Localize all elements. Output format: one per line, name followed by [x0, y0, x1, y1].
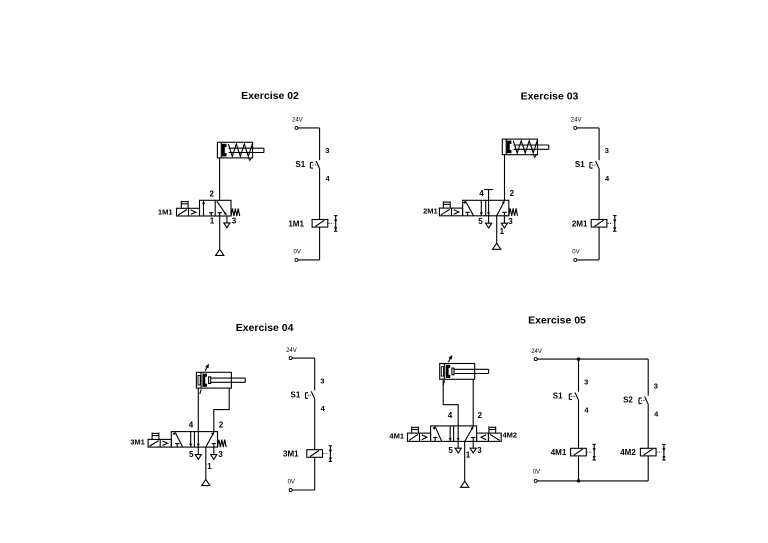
24V supply terminal (Ex05) — [534, 358, 537, 361]
wire cylinder 2A to valve 2V port 2 — [504, 155, 506, 201]
0V terminal (Ex02) — [295, 258, 298, 261]
junction node on 24V rail (Ex05) — [577, 357, 580, 360]
port label 3 (valve 3V) — [218, 450, 223, 459]
wire cylinder 4A right port to valve 4V port 2 — [472, 379, 474, 426]
svg-text:4M1: 4M1 — [551, 448, 567, 457]
wire coil 4M1 to 0V rail — [578, 456, 580, 481]
svg-text:24V: 24V — [286, 348, 297, 354]
svg-text:5: 5 — [189, 450, 194, 459]
wire valve 2V port 1 to air supply — [496, 216, 498, 243]
pin label 4 of S1 (Ex03) — [605, 174, 610, 183]
exhaust port 3 of valve 3V — [211, 447, 217, 459]
0V rail wire (Ex04) — [292, 489, 315, 491]
port label 2 (valve 2V) — [510, 189, 515, 198]
label S2 (Ex05) — [623, 396, 633, 405]
title Exercise 04 — [236, 322, 294, 334]
wire valve 4V port 1 to air supply — [464, 441, 466, 481]
svg-text:S1: S1 — [575, 160, 585, 169]
coil 4M2 — [640, 444, 665, 460]
svg-text:2M1: 2M1 — [423, 207, 438, 216]
valve 3V 5/2-way solenoid valve — [148, 432, 226, 448]
svg-text:4: 4 — [189, 421, 194, 430]
valve 2V 5/2-way solenoid valve — [439, 200, 517, 216]
port label 5 (valve 3V) — [189, 450, 194, 459]
svg-text:1: 1 — [207, 462, 212, 471]
svg-text:24V: 24V — [571, 118, 582, 124]
24V rail wire (Ex02) — [298, 128, 320, 160]
wire S1 to coil 1M1 — [319, 169, 321, 220]
label 24V (Ex05) — [531, 349, 542, 355]
label 4M1 at valve left solenoid — [389, 431, 404, 440]
label 4M2 at valve right solenoid — [503, 430, 518, 439]
wire 24V rail to S1 (Ex05) — [578, 359, 580, 392]
port label 1 (valve 3V) — [207, 462, 212, 471]
compressed air supply (Ex04) — [202, 480, 210, 486]
svg-text:3M1: 3M1 — [283, 450, 299, 459]
0V terminal (Ex03) — [574, 258, 577, 261]
svg-text:3: 3 — [325, 146, 329, 155]
pin label 3 of S1 (Ex04) — [320, 376, 324, 385]
pin label 4 of S2 (Ex05) — [654, 409, 659, 418]
24V rail wire (Ex03) — [577, 128, 599, 160]
svg-text:3: 3 — [477, 446, 482, 455]
label 24V (Ex02) — [292, 118, 303, 124]
svg-text:4: 4 — [448, 411, 453, 420]
exhaust port 3 of valve 4V — [470, 441, 476, 453]
coil 3M1 — [307, 446, 332, 462]
port label 4 (valve 4V) — [448, 411, 453, 420]
wire cylinder 3A right port to valve 3V port 2 — [214, 388, 229, 432]
coil 2M1 — [591, 216, 616, 232]
port label 1 (valve 1V) — [210, 216, 215, 225]
svg-text:2: 2 — [478, 411, 483, 420]
label 4M1 (coil) — [551, 448, 567, 457]
port label 2 (valve 1V) — [209, 189, 214, 198]
valve 4V 5/2-way double solenoid valve — [408, 426, 502, 442]
svg-text:24V: 24V — [531, 349, 542, 355]
label 2M1 at valve solenoid — [423, 207, 438, 216]
wire 24V rail to S2 (Ex05) — [647, 359, 649, 396]
pin label 4 of S1 (Ex04) — [321, 404, 326, 413]
blind plug on port 4 (Ex03) — [484, 190, 493, 201]
pin label 4 of S1 (Ex05) — [584, 405, 589, 414]
port label 1 (valve 4V) — [466, 451, 471, 460]
wire coil 3M1 to 0V rail — [314, 457, 316, 490]
svg-text:3: 3 — [320, 376, 324, 385]
label 2M1 (coil) — [572, 219, 588, 228]
svg-text:S2: S2 — [623, 396, 633, 405]
port label 4 (valve 2V) — [479, 189, 484, 198]
0V rail wire (Ex03) — [577, 259, 599, 261]
svg-text:1M1: 1M1 — [158, 207, 173, 216]
svg-text:0V: 0V — [294, 250, 301, 256]
24V supply terminal (Ex03) — [574, 126, 577, 129]
svg-text:Exercise 02: Exercise 02 — [241, 90, 299, 102]
port label 2 (valve 3V) — [219, 421, 224, 430]
svg-text:24V: 24V — [292, 118, 303, 124]
wire coil 4M2 to 0V rail — [647, 456, 649, 481]
label S1 (Ex05) — [553, 392, 563, 401]
label S1 (Ex03) — [575, 160, 585, 169]
wire S2 to coil 4M2 — [647, 404, 649, 448]
svg-text:3: 3 — [508, 217, 513, 226]
cylinder 3A double-acting — [196, 364, 245, 394]
label 3M1 (coil) — [283, 450, 299, 459]
svg-text:3: 3 — [584, 378, 588, 387]
svg-text:4: 4 — [479, 189, 484, 198]
valve 1V 3/2-way solenoid valve — [177, 200, 240, 216]
exhaust port 5 of valve 3V — [195, 447, 201, 459]
junction node on 0V rail (Ex05) — [577, 479, 580, 482]
svg-text:1: 1 — [500, 227, 505, 236]
svg-text:0V: 0V — [288, 480, 295, 486]
wire S1 to coil 2M1 — [598, 169, 600, 220]
svg-text:S1: S1 — [295, 160, 305, 169]
port label 4 (valve 3V) — [189, 421, 194, 430]
24V supply terminal (Ex02) — [295, 126, 298, 129]
label 1M1 at valve solenoid — [158, 207, 173, 216]
exhaust port 3 of valve 2V — [501, 216, 507, 228]
svg-text:3: 3 — [654, 382, 658, 391]
port label 3 (valve 1V) — [232, 216, 237, 225]
svg-text:0V: 0V — [572, 250, 579, 256]
svg-text:5: 5 — [478, 217, 483, 226]
0V terminal (Ex05) — [534, 479, 537, 482]
exhaust port 5 of valve 4V — [455, 441, 461, 453]
svg-text:3: 3 — [605, 146, 609, 155]
label S1 (Ex02) — [295, 160, 305, 169]
wire S1 to coil 3M1 — [314, 399, 316, 450]
svg-text:Exercise 03: Exercise 03 — [521, 90, 579, 102]
wire coil 2M1 to 0V rail — [598, 227, 600, 260]
compressed air supply (Ex02) — [216, 249, 224, 255]
pin label 3 of S1 (Ex03) — [605, 146, 609, 155]
port label 3 (valve 2V) — [508, 217, 513, 226]
compressed air supply (Ex05) — [461, 481, 469, 487]
wire cylinder 4A left port to valve 4V port 4 — [443, 379, 458, 426]
label 4M2 (coil) — [620, 448, 636, 457]
port label 2 (valve 4V) — [478, 411, 483, 420]
label S1 (Ex04) — [291, 390, 301, 399]
pushbutton S1 (Ex03) — [590, 161, 599, 168]
port label 3 (valve 4V) — [477, 446, 482, 455]
title Exercise 03 — [521, 90, 579, 102]
pushbutton S2 (Ex05) — [639, 397, 648, 404]
label 0V (Ex05) — [533, 470, 540, 476]
compressed air supply (Ex03) — [493, 243, 501, 249]
svg-text:1: 1 — [466, 451, 471, 460]
svg-text:S1: S1 — [553, 392, 563, 401]
port label 5 (valve 2V) — [478, 217, 483, 226]
svg-text:1M1: 1M1 — [288, 219, 304, 228]
24V rail wire (Ex05) — [537, 358, 648, 360]
svg-text:2: 2 — [510, 189, 515, 198]
wire valve 1V port 1 to air supply — [219, 216, 221, 249]
svg-text:S1: S1 — [291, 390, 301, 399]
svg-text:5: 5 — [448, 446, 453, 455]
wire cylinder 1A to valve 1V port 2 — [219, 158, 221, 200]
label 0V (Ex02) — [294, 250, 301, 256]
svg-text:2: 2 — [219, 421, 224, 430]
wire valve 3V port 1 to air supply — [205, 447, 207, 479]
0V rail wire (Ex05) — [537, 480, 648, 482]
label 0V (Ex03) — [572, 250, 579, 256]
pin label 3 of S1 (Ex05) — [584, 378, 588, 387]
svg-text:4M1: 4M1 — [389, 431, 404, 440]
svg-text:1: 1 — [210, 216, 215, 225]
port label 5 (valve 4V) — [448, 446, 453, 455]
label 0V (Ex04) — [288, 480, 295, 486]
svg-text:3: 3 — [232, 216, 237, 225]
0V rail wire (Ex02) — [298, 259, 320, 261]
pushbutton S1 (Ex02) — [310, 161, 319, 168]
exhaust port 3 of valve 1V — [224, 216, 230, 228]
wire cylinder 3A left port to valve 3V port 4 — [197, 388, 199, 432]
pushbutton S1 (Ex05) — [569, 393, 578, 400]
label 1M1 (coil) — [288, 219, 304, 228]
wire S1 to coil 4M1 — [578, 400, 580, 448]
pin label 3 of S2 (Ex05) — [654, 382, 658, 391]
svg-text:3: 3 — [218, 450, 223, 459]
svg-text:4M2: 4M2 — [503, 430, 518, 439]
svg-text:0V: 0V — [533, 470, 540, 476]
pushbutton S1 (Ex04) — [306, 391, 315, 398]
24V rail wire (Ex04) — [292, 358, 315, 390]
cylinder 4A double-acting — [440, 355, 489, 385]
port label 1 (valve 2V) — [500, 227, 505, 236]
svg-text:2M1: 2M1 — [572, 219, 588, 228]
exhaust port 5 of valve 2V — [486, 216, 492, 228]
title Exercise 05 — [528, 314, 586, 326]
coil 4M1 — [571, 444, 596, 460]
24V supply terminal (Ex04) — [289, 357, 292, 360]
coil 1M1 — [312, 216, 337, 232]
pin label 3 of S1 (Ex02) — [325, 146, 329, 155]
label 24V (Ex03) — [571, 118, 582, 124]
svg-text:Exercise 05: Exercise 05 — [528, 314, 586, 326]
title Exercise 02 — [241, 90, 299, 102]
cylinder 2A single-acting — [502, 139, 549, 157]
svg-text:4M2: 4M2 — [620, 448, 636, 457]
cylinder 1A single-acting — [217, 142, 264, 160]
svg-text:3M1: 3M1 — [130, 438, 145, 447]
wire coil 1M1 to 0V rail — [319, 227, 321, 260]
label 24V (Ex04) — [286, 348, 297, 354]
label 3M1 at valve solenoid — [130, 438, 145, 447]
pin label 4 of S1 (Ex02) — [326, 174, 331, 183]
svg-text:2: 2 — [209, 189, 214, 198]
svg-text:Exercise 04: Exercise 04 — [236, 322, 294, 334]
0V terminal (Ex04) — [289, 489, 292, 492]
